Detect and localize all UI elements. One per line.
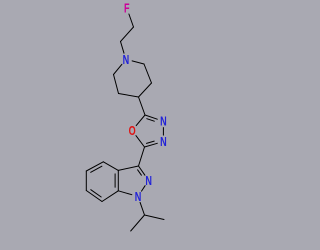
bond CH-methyl [131,215,145,231]
bond N3-N4 oxadiazole [162,128,164,136]
bond N-C2 piperidine [132,61,144,64]
bond C3a-C4 benzene [103,162,118,171]
bond C4-C5 piperidine [119,94,139,98]
double bond C4=C5 benzene [86,162,103,171]
bond C5-C6 benzene [85,171,87,191]
bond N2-N1 indazole [142,186,146,191]
double bond C6=C7 benzene [86,191,102,202]
double bond N4=C2 oxadiazole [145,143,158,147]
svg-text:O: O [129,125,136,139]
bond C3a-C3 indazole [118,166,138,170]
bond CH2-N [121,42,125,54]
bond N1-isopropyl CH [140,202,144,215]
bond C5-C6 piperidine [114,75,119,94]
bond F-CH2 [129,14,134,27]
svg-text:N: N [160,115,167,129]
bond O1-C2 oxadiazole [136,136,145,147]
svg-text:N: N [135,191,142,205]
bond C2-C3 piperidine [144,64,152,83]
bond C3-C4 piperidine [139,83,152,97]
double bond C4=C5 benzene inner [91,166,102,172]
svg-text:N: N [123,53,130,67]
double bond C6=C7 benzene inner [91,190,101,197]
bond CH-methyl [145,215,165,220]
bond N1-C7a indazole [118,191,132,195]
bond piperidine-oxadiazole [139,97,146,115]
bond C7-C7a benzene [102,191,118,202]
double bond C7a=C3a fusion [117,170,119,190]
svg-text:F: F [124,2,130,16]
double bond N4=C2 oxadiazole inner [147,141,155,143]
double bond C3=N2 indazole inner [138,170,142,175]
bond oxadiazole-indazole [139,147,145,166]
double bond C5=N3 oxadiazole [145,115,157,119]
svg-text:N: N [145,174,152,188]
svg-text:N: N [160,135,167,149]
bond C5-O1 oxadiazole [136,115,145,126]
double bond C7a=C3a fusion inner [114,174,116,187]
double bond C3=N2 indazole [139,166,145,175]
double bond C5=N3 oxadiazole inner [147,119,155,122]
bond C6-N piperidine [114,64,122,74]
bond CH2-CH2 [121,27,134,42]
